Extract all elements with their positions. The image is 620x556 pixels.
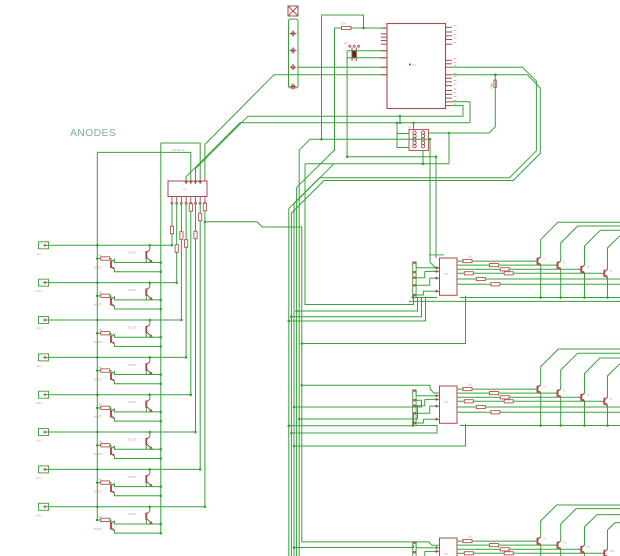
wire Q2 collector [149, 395, 151, 400]
junction [559, 424, 562, 427]
net stub tick [429, 254, 444, 256]
svg-text:T1: T1 [543, 257, 547, 261]
connector X7 body [39, 466, 49, 473]
wire resistor feed [97, 332, 101, 334]
junction [160, 532, 163, 535]
junction [290, 315, 293, 318]
wire T2 collector out [561, 226, 620, 261]
junction [301, 384, 304, 387]
connector JP1 pin 3 [290, 66, 297, 68]
junction [293, 445, 296, 448]
resistor on IC3 output 5 [476, 405, 485, 408]
junction [160, 523, 163, 526]
svg-text:X6-1: X6-1 [36, 439, 42, 443]
wire IC2 output 2 [457, 264, 555, 266]
junction [160, 308, 163, 311]
junction [160, 336, 163, 339]
wire bus net 2 loop [291, 75, 540, 556]
wire T8 collector out [608, 364, 620, 398]
resistor on IC4 output 4 [504, 552, 513, 555]
resistor R7 [101, 481, 110, 484]
junction [290, 432, 293, 435]
resistor on IC2 output 3 [500, 268, 509, 271]
wire resistor to Q base [110, 408, 111, 410]
IC2 emitter rail [460, 297, 620, 299]
junction [204, 221, 207, 224]
svg-text:4k7: 4k7 [99, 328, 104, 332]
wire row 2 input [49, 282, 177, 284]
svg-text:4k7: 4k7 [99, 477, 104, 481]
svg-text:BC337: BC337 [94, 452, 102, 456]
junction [160, 485, 163, 488]
wire R17 to IC1 [335, 27, 342, 29]
wire T10 collector out [561, 509, 620, 541]
svg-text:T6: T6 [563, 389, 567, 393]
connector X4 pin [44, 356, 46, 359]
transistor T7 [580, 394, 582, 401]
connector JP1 pin 2 [290, 50, 297, 52]
IC5 input triangles [185, 182, 188, 185]
wire Q2 collector [149, 320, 151, 325]
wire Q collector to rail [115, 259, 161, 262]
transistor T12 [603, 550, 605, 556]
wire branch block2 e [291, 425, 437, 433]
wire Q2 base stub [145, 408, 147, 412]
transistor T8 [603, 398, 605, 405]
resistor on IC2 output 4 [504, 272, 513, 275]
wire branch to block3 a [302, 542, 440, 545]
transistor T10 [557, 542, 559, 549]
transistor array IC5 body [168, 181, 207, 197]
wire branch block1 bottom [302, 296, 466, 344]
wire Q2 base stub [145, 333, 147, 337]
junction [96, 393, 99, 396]
wire branch to block2 a [302, 385, 440, 393]
wire row 1 input [49, 244, 173, 246]
junction [160, 420, 163, 423]
wire net from JP1 to IC1 [205, 75, 387, 177]
wire L1 top pin [413, 123, 415, 130]
wire Q emitter down [115, 270, 161, 272]
IC1 name mark [409, 63, 411, 65]
wire XTAL1 [347, 50, 387, 52]
svg-text:X7-1: X7-1 [36, 476, 42, 480]
IC3 emitter rail [460, 425, 620, 427]
svg-text:4k7: 4k7 [99, 253, 104, 257]
connector JP1 pin 4 [290, 86, 297, 88]
wire cathode fan 3 [180, 203, 182, 320]
wire Q2 base stub [145, 445, 147, 449]
wire Q emitter down [115, 307, 161, 309]
wire IC2 output 4 [457, 272, 601, 274]
wire Q2 base stub [145, 296, 147, 300]
wire row 8 input [49, 506, 205, 508]
crystal Q1 pin dots [349, 45, 351, 47]
svg-text:Q1: Q1 [344, 41, 348, 45]
resistor R2 [101, 294, 110, 297]
wire T1 emitter down [540, 266, 542, 298]
wire bus net 3 bend [294, 164, 334, 556]
IC2 left connector strip [412, 262, 414, 298]
wire horizontal 139 [310, 138, 430, 140]
junction [180, 319, 183, 322]
wire T9 emitter down [540, 546, 542, 556]
junction [583, 296, 586, 299]
wire IC3 output 2 [457, 392, 555, 394]
IC5 top pin stub [204, 177, 206, 182]
wire L1 left pin upper [397, 133, 409, 135]
IC2 left step b [416, 271, 425, 277]
wire IC3 output 3 [457, 396, 578, 398]
wire resistor feed [97, 407, 101, 409]
wire resistor feed [97, 295, 101, 297]
wire resistor to Q base [110, 445, 111, 447]
wire Q emitter down [115, 494, 161, 496]
wire cathode fan 7 [199, 203, 201, 469]
resistor R1 [101, 257, 110, 260]
junction [96, 505, 99, 508]
IC1 right pins upper [446, 26, 453, 28]
wire T12 collector out [608, 523, 620, 550]
junction [298, 418, 301, 421]
wire IC2 output 5 [457, 278, 620, 280]
connector JP1 body [289, 19, 299, 88]
resistor on fan wire [170, 226, 173, 234]
junction [96, 481, 99, 484]
wire Q emitter down [115, 344, 161, 346]
wire Q2 base stub [145, 520, 147, 524]
resistor on IC4 output 3 [500, 548, 509, 551]
wire resistor to Q base [110, 371, 111, 373]
connector X3 body [39, 317, 49, 324]
svg-text:4k7: 4k7 [99, 365, 104, 369]
wire row 7 input [49, 468, 201, 470]
junction [96, 332, 99, 335]
wire IC4 output 3 [457, 548, 578, 550]
wire bus net 1 loop [289, 67, 537, 556]
wire branch to block3 b [294, 545, 414, 548]
wire IC4 output 1 [457, 540, 535, 542]
resistor on IC2 output 6 [491, 283, 500, 286]
wire Q2 collector [149, 245, 151, 250]
junction [149, 393, 152, 396]
wire cathode fan 8 [204, 203, 206, 506]
junction [199, 468, 202, 471]
wire resistor feed [97, 444, 101, 446]
wire Q collector to rail [115, 371, 161, 374]
op-amp U1 main IC1 body [387, 24, 446, 109]
svg-text:10k: 10k [468, 384, 473, 387]
wire bus net 5 bend [299, 139, 310, 556]
svg-text:BC327: BC327 [129, 251, 137, 255]
junction [160, 448, 163, 451]
wire Q emitter down [115, 419, 161, 421]
resistor R4 [101, 369, 110, 372]
wire Q collector to rail [115, 297, 161, 300]
IC4 left step b [416, 551, 425, 556]
junction [411, 424, 414, 427]
svg-text:BC327: BC327 [129, 475, 137, 479]
wire L1 right pin [429, 132, 450, 134]
svg-text:BC337: BC337 [94, 265, 102, 269]
wire Q collector to rail [115, 521, 161, 524]
op-amp IC2 block body [440, 258, 458, 295]
IC3 strip pads [413, 389, 417, 391]
transistor T6 [557, 390, 559, 397]
wire T9 collector out [541, 505, 620, 537]
wire resistor feed [97, 370, 101, 372]
svg-text:10k: 10k [468, 256, 473, 259]
resistor on IC3 output 6 [491, 411, 500, 414]
transistor Q5 [110, 335, 112, 343]
transistor Q9 [110, 410, 112, 418]
IC4 left connector strip [412, 542, 414, 556]
IC2 left step c [416, 278, 430, 285]
resistor on IC4 output 2 [490, 544, 499, 547]
resistor on fan wire [175, 245, 178, 253]
junction [606, 296, 609, 299]
transistor Q2 [145, 251, 147, 259]
junction [494, 73, 497, 76]
IC5 bottom pin pads [171, 202, 173, 204]
inductor L1 coils [413, 131, 416, 134]
svg-text:T7: T7 [586, 393, 590, 397]
svg-text:T2: T2 [563, 261, 567, 265]
resistor on IC3 output 2 [490, 392, 499, 395]
resistor on IC4 output 1 [463, 540, 472, 543]
resistor on fan wire [180, 232, 183, 240]
wire cathode fan 6 [195, 203, 197, 432]
wire cathode fan 4 [185, 203, 187, 357]
wire reset vertical [321, 15, 323, 139]
wire vertical at 334 [297, 28, 335, 556]
wire resistor feed [97, 482, 101, 484]
wire Q2 collector [149, 469, 151, 474]
junction [96, 369, 99, 372]
connector X1 body [39, 242, 49, 249]
wire T3 collector out [585, 230, 620, 265]
connector X3 pin [44, 319, 46, 322]
svg-text:BC337: BC337 [94, 377, 102, 381]
junction [96, 407, 99, 410]
inductor L1 body [409, 130, 429, 151]
crystal Q1 plate right [355, 48, 357, 62]
wire T6 collector out [561, 353, 620, 389]
junction [160, 495, 163, 498]
transistor T2 [557, 262, 559, 269]
junction [175, 281, 178, 284]
wire resistor to Q base [110, 483, 111, 485]
wire row 5 input [49, 394, 191, 396]
transistor Q16 [145, 513, 147, 521]
wire T11 collector out [585, 515, 620, 546]
resistor on fan wire [189, 204, 192, 212]
junction [160, 382, 163, 385]
junction [96, 295, 99, 298]
junction [539, 424, 542, 427]
wire Q2 collector [149, 432, 151, 437]
wire IC4 output 2 [457, 544, 555, 546]
svg-text:4k7: 4k7 [99, 291, 104, 295]
junction [149, 244, 152, 247]
svg-text:+5V: +5V [490, 82, 494, 89]
junction [160, 345, 163, 348]
IC3 left step a [415, 391, 417, 396]
connector X5 pin [44, 393, 46, 396]
svg-text:L1: L1 [408, 125, 412, 129]
transistor Q6 [145, 326, 147, 334]
wire resistor to Q base [110, 333, 111, 335]
junction [149, 431, 152, 434]
IC3 bottom rail [413, 425, 437, 427]
wire IC1 pin to node A [186, 102, 470, 181]
junction [96, 257, 99, 260]
transistor Q15 [110, 522, 112, 530]
wire Q collector to rail [115, 483, 161, 486]
junction [160, 270, 163, 273]
wire Q collector to rail [115, 409, 161, 412]
IC4 left step a [415, 543, 417, 548]
junction [96, 356, 99, 359]
wire branch to block1 a [305, 164, 414, 305]
junction [194, 431, 197, 434]
svg-text:IC2: IC2 [444, 272, 449, 276]
junction [422, 162, 425, 165]
resistor on IC3 output 4 [504, 400, 513, 403]
wire T10 emitter down [560, 550, 562, 556]
wire IC3 output 6 [457, 411, 620, 413]
svg-text:BC337: BC337 [94, 303, 102, 307]
junction [435, 155, 438, 158]
wire resistor feed [97, 258, 101, 260]
wire T2 emitter down [560, 270, 562, 298]
junction [185, 356, 188, 359]
svg-text:IC3: IC3 [444, 400, 449, 404]
transistor T4 [603, 270, 605, 277]
resistor on IC4 output 4 [464, 552, 473, 555]
junction [293, 546, 296, 549]
svg-text:4k7: 4k7 [99, 440, 104, 444]
junction [448, 132, 451, 135]
svg-text:4k7: 4k7 [99, 403, 104, 407]
resistor on IC3 output 3 [500, 396, 509, 399]
wire Q2 base stub [145, 371, 147, 375]
IC1 right pins lower [446, 59, 453, 61]
svg-text:BC337: BC337 [94, 527, 102, 531]
wire Q2 base stub [145, 259, 147, 263]
crystal Q1 plate left [351, 48, 353, 62]
wire XTAL2 [347, 57, 387, 59]
crystal Q1 body [353, 51, 356, 58]
wire IC3 output 4 [457, 400, 601, 402]
svg-text:T3: T3 [586, 265, 590, 269]
svg-text:X4-1: X4-1 [36, 364, 42, 368]
svg-text:IC4: IC4 [444, 552, 449, 556]
IC2 bottom rail [413, 297, 437, 299]
svg-text:BC327: BC327 [129, 512, 137, 516]
svg-text:IC5: IC5 [183, 188, 188, 192]
wire IC1 pin to node B [196, 106, 464, 181]
wire row 4 input [49, 356, 187, 358]
connector X6 pin [44, 431, 46, 434]
transistor Q3 [110, 298, 112, 306]
wire branch to block1 b [297, 298, 418, 312]
resistor R3 [101, 332, 110, 335]
wire node down [448, 133, 450, 164]
resistor on fan wire [185, 240, 188, 248]
junction [288, 424, 291, 427]
wire horizontal 156 [347, 156, 436, 158]
svg-text:BC327: BC327 [129, 437, 137, 441]
wire Q collector to rail [115, 446, 161, 449]
resistor on IC3 output 1 [463, 388, 472, 391]
junction [293, 406, 296, 409]
connector X8 pin [44, 505, 46, 508]
wire vertical into block IC2 a [430, 139, 440, 268]
wire tie [399, 116, 401, 123]
wire rail 2 top [97, 152, 191, 181]
IC2 left step a [415, 263, 417, 268]
junction [606, 424, 609, 427]
IC1 left pins [381, 27, 387, 29]
svg-text:X5-1: X5-1 [36, 401, 42, 405]
IC3 left step b [416, 399, 425, 405]
transistor Q11 [110, 447, 112, 455]
wire Q2 base stub [145, 483, 147, 487]
wire row 6 input [49, 431, 196, 433]
junction [149, 356, 152, 359]
junction [149, 281, 152, 284]
junction [559, 296, 562, 299]
IC3 left step d [416, 419, 423, 423]
wire IC2 output 3 [457, 268, 578, 270]
wire resistor feed [97, 519, 101, 521]
IC3 left pin wires [416, 395, 436, 397]
resistor on IC2 output 4 [464, 272, 473, 275]
wire IC3 output 5 [457, 406, 620, 408]
junction [411, 296, 414, 299]
transistor Q12 [145, 438, 147, 446]
connector JP1 top box [288, 6, 298, 16]
connector X6 body [39, 429, 49, 436]
IC5 bottom pins [171, 197, 173, 203]
junction [149, 319, 152, 322]
svg-text:BC327: BC327 [129, 288, 137, 292]
wire row 3 input [49, 319, 182, 321]
wire Q emitter down [115, 382, 161, 384]
junction [149, 505, 152, 508]
resistor R17 [341, 26, 351, 29]
IC2 left pin wires [416, 267, 436, 269]
IC4 left pin wires [416, 547, 436, 549]
wire rail 1 top [161, 143, 200, 181]
connector X8 body [39, 503, 49, 510]
connector JP1 pin 1 [290, 33, 297, 35]
resistor on fan wire [199, 213, 202, 221]
junction [149, 468, 152, 471]
wire branch to block1 d [289, 298, 426, 322]
junction [160, 261, 163, 264]
wire branch to block2 c [299, 406, 417, 419]
wire branch to block1 c [291, 298, 421, 317]
junction [583, 424, 586, 427]
connector X1 pin [44, 244, 46, 247]
svg-text:IC1: IC1 [412, 63, 417, 67]
wire Q collector to rail [115, 334, 161, 337]
connector X2 pin [44, 281, 46, 284]
junction [412, 122, 415, 125]
svg-text:T9: T9 [543, 537, 547, 541]
